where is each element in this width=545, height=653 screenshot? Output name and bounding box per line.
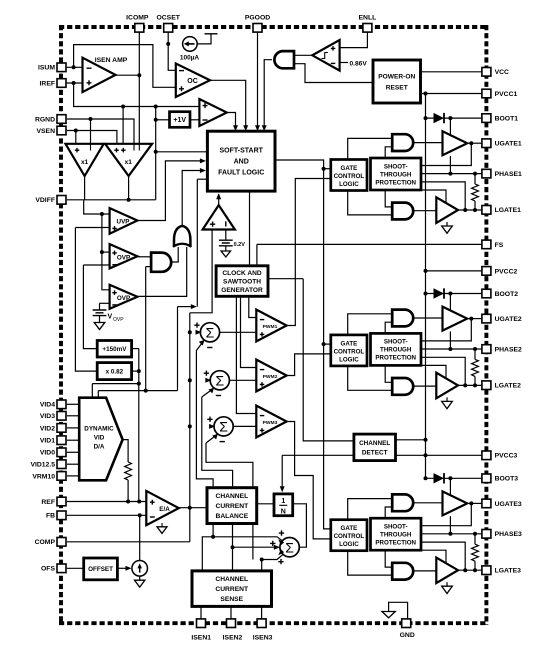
svg-text:VID1: VID1 — [40, 438, 55, 445]
wire VCC to POR box — [421, 71, 483, 73]
buffer x1 first — [66, 144, 104, 176]
svg-text:E/A: E/A — [159, 506, 170, 513]
wire DAC change loop — [178, 306, 194, 308]
box CHANNEL CURRENT BALANCE — [207, 488, 257, 524]
pin LGATE3 — [482, 566, 491, 575]
svg-text:LGATE1: LGATE1 — [495, 207, 522, 214]
arrow offset into source — [126, 566, 132, 571]
wire ISUM to ISEN amp and OC+ — [66, 66, 82, 68]
svg-text:LGATE2: LGATE2 — [495, 383, 522, 390]
arrow enable into soft-start — [262, 125, 267, 131]
pin VID12.5 — [57, 460, 66, 469]
arrow comp-monitor into soft-start — [216, 193, 221, 199]
wire OVP2 output to OR gate — [137, 245, 186, 297]
wire channel current sense 1 to balance and averaging summer — [202, 537, 283, 571]
wire PWM1 output to gate control logic 1 — [287, 179, 331, 326]
wire channel current sense 3 to balance and averaging summer — [262, 554, 283, 571]
wire VDIFF line to node at x=155.7 — [67, 199, 156, 201]
pin ISEN1 — [197, 619, 206, 628]
node +1V box tap — [154, 118, 158, 122]
arrow OC into soft-start — [243, 125, 248, 131]
channel 1 driver cell — [331, 113, 482, 233]
wire current balance correction 2 to summer2 — [202, 397, 233, 488]
arrow PGOOD into soft-start — [255, 125, 260, 131]
wire OFS to offset box — [67, 567, 84, 569]
DAC DYNAMIC VID D/A — [79, 398, 122, 481]
svg-text:VID12.5: VID12.5 — [30, 462, 55, 469]
comparator +1V over-voltage — [199, 99, 226, 126]
wire current balance correction 3 to summer3 — [206, 443, 253, 488]
pin VSEN — [57, 126, 66, 135]
svg-text:GENERATOR: GENERATOR — [221, 287, 263, 294]
pin UGATE1 — [482, 139, 491, 148]
pin PGOOD — [253, 24, 262, 33]
box +1V reference — [170, 112, 191, 128]
svg-text:UGATE1: UGATE1 — [495, 141, 522, 148]
pin VCC — [482, 68, 491, 77]
svg-text:PHASE2: PHASE2 — [495, 346, 522, 353]
svg-text:x1: x1 — [81, 159, 89, 166]
channel 3 driver cell — [331, 473, 482, 593]
wire PVCC rail — [425, 94, 427, 479]
box CHANNEL DETECT — [354, 434, 396, 461]
svg-text:ISEN2: ISEN2 — [223, 635, 243, 642]
wire error amp bus feeding summers — [189, 313, 191, 542]
svg-text:VID: VID — [94, 435, 105, 442]
wire RGND to x1 buffers — [67, 119, 134, 144]
pin ISEN3 — [257, 619, 266, 628]
pin VID0 — [57, 448, 66, 457]
wire POR box output to enable AND — [294, 64, 373, 83]
wire PGOOD down to soft-start — [257, 31, 259, 129]
svg-text:LGATE3: LGATE3 — [495, 568, 522, 575]
wire summer1 output to PWM1+ — [220, 331, 257, 333]
svg-text:VRM10: VRM10 — [32, 473, 55, 480]
svg-text:BOOT2: BOOT2 — [495, 291, 519, 298]
pin OCSET — [164, 24, 173, 33]
node VSEN junction — [74, 129, 78, 133]
arrow DAC loop into soft-start stub — [191, 304, 197, 309]
svg-text:RESET: RESET — [386, 84, 408, 91]
arrow channel detect into 1/N — [280, 486, 285, 492]
node DAC resistor on REF — [126, 500, 130, 504]
node +150mV junction on REF — [137, 500, 141, 504]
svg-text:OFS: OFS — [41, 566, 55, 573]
svg-text:PVCC3: PVCC3 — [495, 453, 518, 460]
wire UVP output to soft-start — [137, 161, 203, 221]
pin PVCC1 — [482, 89, 491, 98]
svg-text:ENLL: ENLL — [359, 15, 377, 22]
svg-text:VID4: VID4 — [40, 402, 55, 409]
wire OCSET to OC- input and 100uA source — [168, 31, 176, 70]
arrow OR gate into soft-start — [200, 168, 206, 173]
svg-text:PVCC2: PVCC2 — [495, 268, 518, 275]
wire clock ramp to PWM2 — [241, 296, 257, 367]
wire OVP1 output to AND gate — [137, 256, 151, 258]
box +150mV — [97, 341, 131, 358]
svg-text:VID0: VID0 — [40, 450, 55, 457]
wire DAC output through resistor to REF — [123, 440, 129, 462]
svg-text:ISEN1: ISEN1 — [191, 635, 211, 642]
pin ENLL — [363, 24, 372, 33]
comparator UVP — [110, 208, 138, 234]
svg-text:CLOCK AND: CLOCK AND — [222, 270, 262, 277]
node VID loop junction — [144, 389, 148, 393]
svg-text:REF: REF — [41, 499, 55, 506]
wire +1V box left tap — [156, 119, 170, 121]
node SS bus to GCL1 — [322, 167, 326, 171]
AND gate OVP/VID — [151, 253, 171, 272]
pin PVCC3 — [482, 451, 491, 460]
IC boundary dashed border — [59, 25, 488, 625]
svg-text:POWER-ON: POWER-ON — [378, 73, 415, 80]
resistor DAC to REF — [125, 462, 132, 480]
svg-text:Σ: Σ — [206, 324, 215, 340]
svg-text:V: V — [108, 314, 113, 321]
wire +1V box output to comparator — [190, 119, 199, 121]
comparator COMP monitor (pointing up) — [203, 205, 235, 229]
svg-text:OVP: OVP — [117, 295, 130, 302]
wire ICOMP down to x1 input, joins ISEN amp output — [138, 31, 140, 145]
svg-text:COMP: COMP — [35, 539, 56, 546]
pin OFS — [57, 564, 66, 573]
ground GND pin symbol — [382, 612, 395, 618]
pin GND — [402, 619, 411, 628]
svg-text:100µA: 100µA — [180, 55, 200, 62]
svg-text:FB: FB — [46, 513, 55, 520]
box POWER-ON RESET — [373, 60, 421, 103]
svg-text:BALANCE: BALANCE — [215, 513, 248, 520]
svg-text:Σ: Σ — [215, 372, 224, 388]
svg-text:1: 1 — [281, 498, 285, 505]
ground below error amp — [161, 523, 163, 527]
wire ISEN2 to current sense — [230, 606, 232, 618]
svg-text:0.2V: 0.2V — [234, 242, 246, 248]
node IREF junction — [72, 81, 76, 85]
node soft-start VDIFF tap — [154, 150, 158, 154]
svg-text:PVCC1: PVCC1 — [495, 91, 518, 98]
pin VRM10 — [57, 472, 66, 481]
svg-text:PGOOD: PGOOD — [245, 15, 270, 22]
wire ISEN amp output to ICOMP node — [116, 74, 140, 76]
comparator OC — [176, 64, 210, 98]
wire DAC to x0.82/+150mV junction — [92, 383, 139, 385]
pin PHASE3 — [482, 530, 491, 539]
svg-text:UGATE2: UGATE2 — [495, 316, 522, 323]
svg-text:N: N — [281, 509, 286, 516]
node x1 output on VDIFF — [127, 198, 131, 202]
wire soft-start stub down to DAC loop — [197, 178, 207, 180]
wire channel detect to PVCC rail upper — [396, 439, 426, 441]
wire 100uA source to supply tee — [197, 34, 211, 44]
box x 0.82 — [97, 363, 131, 380]
svg-text:GND: GND — [400, 632, 415, 639]
svg-text:PWM2: PWM2 — [263, 374, 278, 380]
pin VID1 — [57, 436, 66, 445]
node ISUM junction — [72, 65, 76, 69]
node error amp output — [188, 506, 192, 510]
svg-text:VID3: VID3 — [40, 413, 55, 420]
svg-text:RGND: RGND — [35, 116, 55, 123]
wire summer3 output to PWM3+ — [233, 425, 256, 427]
wire summer2 output to PWM2+ — [229, 379, 256, 381]
svg-text:OC: OC — [187, 78, 198, 85]
node current sense 3 junction — [260, 558, 264, 562]
svg-text:Σ: Σ — [285, 539, 294, 555]
wire +1V comparator output to soft-start — [227, 113, 236, 129]
wire error amp output to channel current balance — [179, 507, 207, 509]
box OFFSET — [84, 558, 118, 580]
wire FS to clock generator — [257, 243, 482, 245]
svg-text:BOOT1: BOOT1 — [495, 116, 519, 123]
wire PVCC2 pin to rail — [426, 270, 483, 272]
node PVCC2 rail tap — [424, 269, 428, 273]
arrow UVP into soft-start — [200, 158, 206, 163]
svg-text:x 0.82: x 0.82 — [106, 368, 124, 375]
node IREF junction at x1 — [121, 105, 125, 109]
pin LGATE2 — [482, 381, 491, 390]
pin ISEN2 — [227, 619, 236, 628]
wire VSEN to x1 buffers — [67, 131, 117, 144]
pin ISUM — [57, 63, 66, 72]
wire IREF/VDIFF node vertical into soft-start — [155, 107, 157, 200]
wire soft-start output bus to gate logic — [275, 160, 331, 529]
pin LGATE1 — [482, 206, 491, 215]
wire channel current sense 2 to balance and averaging summer — [232, 488, 234, 571]
pin IREF — [57, 79, 66, 88]
svg-text:CURRENT: CURRENT — [215, 586, 249, 593]
buffer x1 second — [105, 144, 152, 176]
comparator PWM1 — [256, 310, 286, 342]
svg-text:CHANNEL: CHANNEL — [215, 576, 248, 583]
wire PWM3 output to gate control logic 3 — [287, 422, 331, 539]
wire PVCC3 pin line — [396, 454, 483, 456]
svg-text:UGATE3: UGATE3 — [495, 501, 522, 508]
svg-text:UVP: UVP — [117, 218, 130, 225]
pin PHASE2 — [482, 345, 491, 354]
wire channel detect to 1/N divider — [282, 454, 354, 456]
pin COMP — [57, 538, 66, 547]
pin VID3 — [57, 412, 66, 421]
svg-text:DYNAMIC: DYNAMIC — [84, 426, 114, 433]
svg-text:+1V: +1V — [173, 117, 186, 124]
op-amp ISEN AMP — [83, 58, 116, 92]
op-amp E/A error amplifier — [146, 491, 179, 525]
comparator OVP lower — [110, 285, 138, 309]
ground VOVP reference — [93, 310, 107, 316]
wire COMP-monitor comparator input — [190, 230, 212, 313]
pin UGATE3 — [482, 499, 491, 508]
svg-text:IREF: IREF — [40, 80, 55, 87]
wire averaging summer output to 1/N — [293, 504, 307, 547]
wire offset source to ground arrow — [139, 576, 141, 580]
OR gate fault (pointing up) — [174, 226, 190, 247]
node RGND junction — [89, 117, 93, 121]
wire VID pin stubs — [67, 403, 79, 405]
wire +150mV / x0.82 outputs down to REF — [132, 348, 139, 350]
ground open arrow below offset source — [135, 580, 145, 587]
svg-text:PHASE1: PHASE1 — [495, 171, 522, 178]
wire POR box to PVCC1 pin — [421, 93, 483, 95]
comparator PWM3 — [256, 406, 286, 438]
node VDIFF comparator bus top — [100, 212, 104, 216]
wire channel detect bus to clock — [268, 278, 303, 280]
wire enable AND gate output to soft-start — [264, 60, 272, 129]
channel 2 driver cell — [331, 288, 482, 408]
comparator ENLL 0.86V — [312, 40, 339, 71]
svg-text:OCSET: OCSET — [156, 15, 180, 22]
svg-text:CHANNEL: CHANNEL — [215, 493, 248, 500]
svg-text:PHASE3: PHASE3 — [495, 531, 522, 538]
svg-text:ISEN AMP: ISEN AMP — [95, 57, 128, 64]
node current sense 1 junction — [211, 535, 215, 539]
wire offset current source arrow feed — [117, 567, 126, 569]
node PVCC rail top — [424, 92, 428, 96]
box 1/N divider — [274, 494, 293, 516]
wire +150mV output to OVP+ — [83, 264, 109, 266]
wire REF line to error amp + — [67, 501, 147, 503]
svg-text:Σ: Σ — [219, 418, 228, 434]
wire 1/N output to channel current balance — [257, 503, 274, 505]
node ICOMP/ISEN out junction — [137, 73, 141, 77]
wire COMP line to error amp output — [67, 541, 190, 543]
svg-text:D/A: D/A — [94, 444, 105, 451]
wire OR gate output to soft-start — [182, 171, 203, 227]
summer 1 — [200, 323, 219, 342]
wire current balance correction 1 to summer1 — [196, 351, 213, 489]
pin ICOMP — [135, 24, 144, 33]
current source 100uA — [183, 37, 198, 52]
wire PWM2 output to gate control logic 2 — [287, 354, 331, 376]
wire FB line to error amp - — [67, 514, 147, 516]
svg-text:VCC: VCC — [495, 69, 509, 76]
wire soft-start to clock generator — [249, 190, 251, 266]
svg-text:SOFT-START: SOFT-START — [219, 148, 263, 155]
svg-text:ISEN3: ISEN3 — [253, 635, 273, 642]
node DAC feed junction — [137, 382, 141, 386]
wire GND pin to ground symbol — [389, 602, 408, 618]
pin RGND — [57, 115, 66, 124]
wire clock ramp to PWM1 — [249, 296, 256, 317]
svg-text:PWM3: PWM3 — [263, 420, 278, 426]
pin VID2 — [57, 424, 66, 433]
current source offset — [132, 561, 148, 577]
wire OVP/VID AND gate output to OR gate — [172, 245, 179, 263]
svg-text:OVP: OVP — [113, 317, 124, 323]
pin FB — [57, 511, 66, 520]
node OCSET junction — [166, 42, 170, 46]
comparator OVP upper — [110, 244, 138, 268]
wire ENLL down to POR comparator + — [340, 31, 368, 48]
pin FS — [482, 240, 491, 249]
svg-text:OFFSET: OFFSET — [88, 566, 113, 573]
svg-text:0.86V: 0.86V — [350, 60, 368, 67]
svg-text:CURRENT: CURRENT — [215, 503, 249, 510]
summer 2 — [210, 371, 229, 390]
pin BOOT2 — [482, 289, 491, 298]
pin VID4 — [57, 400, 66, 409]
wire x1 buffer outputs to VDIFF line — [84, 174, 86, 200]
node PVCC3 rail tap — [424, 453, 428, 457]
svg-text:VSEN: VSEN — [36, 128, 55, 135]
box CLOCK AND SAWTOOTH GENERATOR — [216, 266, 268, 297]
svg-text:FAULT LOGIC: FAULT LOGIC — [218, 170, 264, 177]
svg-text:VID2: VID2 — [40, 425, 55, 432]
wire VID AND input branch — [146, 266, 151, 268]
wire POR comparator output to enable AND — [294, 54, 312, 56]
svg-text:OVP: OVP — [117, 254, 130, 261]
node current sense 2 junction — [231, 545, 235, 549]
wire 0.86V reference stub — [340, 62, 348, 64]
wire ISEN1 to current sense — [200, 606, 202, 618]
svg-text:CHANNEL: CHANNEL — [359, 440, 390, 447]
wire IREF to ISEN amp, down to x1 and +1V comparator — [66, 82, 82, 84]
summer 3 — [214, 417, 233, 436]
svg-text:VDIFF: VDIFF — [35, 197, 55, 204]
svg-text:x1: x1 — [125, 159, 133, 166]
pin PVCC2 — [482, 267, 491, 276]
pin VDIFF — [57, 196, 66, 205]
svg-text:FS: FS — [495, 242, 504, 249]
svg-text:DETECT: DETECT — [362, 449, 388, 456]
svg-text:ISUM: ISUM — [38, 65, 55, 72]
box SOFT-START AND FAULT LOGIC — [207, 131, 275, 191]
wire OC comparator output to soft-start — [210, 80, 246, 128]
node channel detect rail tap upper — [424, 438, 428, 442]
arrow +1V comp into soft-start — [233, 125, 238, 131]
pin REF — [57, 497, 66, 506]
wire VDIFF branch to protection comparators — [84, 200, 110, 214]
svg-text:AND: AND — [234, 159, 249, 166]
wire clock ramp to PWM3 — [236, 296, 256, 413]
pin BOOT3 — [482, 474, 491, 483]
comparator PWM2 — [256, 360, 286, 392]
svg-text:+150mV: +150mV — [102, 346, 127, 353]
wire VOVP reference to OVP2- — [100, 302, 110, 304]
ground 0.2V reference — [225, 230, 227, 241]
node SS bus to GCL2 — [322, 342, 326, 346]
box CHANNEL CURRENT SENSE — [192, 571, 272, 607]
node VDIFF comparator bus mid — [100, 250, 104, 254]
summer averaging — [280, 538, 299, 557]
wire ISEN3 to current sense — [261, 606, 263, 618]
svg-text:ICOMP: ICOMP — [126, 15, 149, 22]
node x0.82 output junction — [137, 369, 141, 373]
svg-text:BOOT3: BOOT3 — [495, 476, 519, 483]
svg-text:PWM1: PWM1 — [263, 324, 278, 330]
svg-text:SENSE: SENSE — [220, 596, 243, 603]
wire x0.82 output to UVP+ — [75, 227, 109, 229]
node FB junction — [138, 513, 142, 517]
pin PHASE1 — [482, 169, 491, 178]
AND gate enable (left facing) — [274, 51, 294, 68]
svg-text:SAWTOOTH: SAWTOOTH — [223, 278, 261, 285]
pin BOOT1 — [482, 114, 491, 123]
pin UGATE2 — [482, 314, 491, 323]
